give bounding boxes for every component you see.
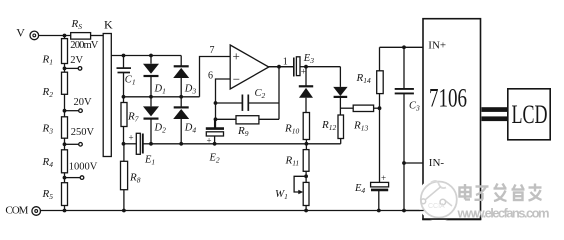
- svg-text:CCIA: CCIA: [428, 203, 445, 210]
- node E3 output: [304, 65, 308, 69]
- svg-text:+: +: [129, 133, 134, 143]
- resistor R14: [377, 47, 384, 108]
- resistor R2: [62, 72, 68, 94]
- svg-text:R14: R14: [356, 72, 371, 85]
- svg-text:R8: R8: [129, 172, 141, 185]
- capacitor E1: [124, 133, 152, 154]
- svg-text:IN-: IN-: [429, 157, 445, 169]
- svg-text:R7: R7: [127, 111, 139, 124]
- wire R2 to R3: [64, 94, 66, 117]
- node output junction: [277, 65, 281, 69]
- resistor R11: [303, 144, 309, 183]
- resistor R12: [338, 115, 344, 139]
- capacitor E2: [206, 119, 224, 144]
- svg-text:E2: E2: [209, 153, 220, 165]
- op-amp U1: [230, 45, 269, 89]
- wire rail to R12: [340, 139, 342, 144]
- node C1 top: [122, 54, 126, 58]
- wire diode mid rail: [124, 96, 200, 98]
- diode D2: [143, 97, 159, 144]
- node C1 R7 junction: [122, 95, 126, 99]
- svg-text:R5: R5: [42, 188, 54, 201]
- node D4 bottom: [179, 142, 183, 146]
- wire R3 to R4: [64, 138, 66, 150]
- svg-text:C3: C3: [409, 101, 420, 113]
- node R9 left: [214, 117, 218, 121]
- svg-text:R13: R13: [353, 120, 368, 133]
- wire IN+: [380, 46, 424, 48]
- contact 1000V: [80, 176, 84, 180]
- wire R7 to rail: [123, 127, 125, 144]
- node R11 W1: [304, 174, 308, 178]
- svg-text:LCD: LCD: [512, 99, 548, 129]
- wire lower mid rail: [151, 143, 341, 145]
- node tap 20V: [63, 109, 67, 113]
- svg-text:C1: C1: [125, 75, 136, 87]
- wire tap 250V: [65, 143, 79, 145]
- svg-text:E3: E3: [303, 53, 314, 65]
- resistor R1: [62, 39, 68, 64]
- node D2 top: [149, 95, 153, 99]
- svg-text:−: −: [233, 72, 240, 87]
- diode D5: [299, 67, 313, 113]
- watermark chinese glyph blocks: [460, 184, 542, 202]
- node R5 bottom: [63, 209, 67, 213]
- diode D4: [173, 97, 189, 144]
- node tap 2V: [63, 67, 67, 71]
- resistor R13: [353, 105, 373, 111]
- IC 7106 box: [423, 19, 481, 220]
- node D4 top: [179, 95, 183, 99]
- node W1 bottom: [304, 209, 308, 213]
- wire R14 node to E4: [379, 108, 381, 182]
- node R13 R14: [378, 106, 382, 110]
- resistor R9: [216, 116, 280, 124]
- wire Rs to K: [91, 35, 104, 37]
- wire E3 node to D6: [306, 66, 340, 68]
- resistor R7: [121, 103, 127, 127]
- svg-text:D4: D4: [184, 123, 197, 135]
- wire junction to R7: [123, 97, 125, 103]
- wire R1 to R2: [64, 64, 66, 73]
- svg-text:COM: COM: [5, 205, 28, 217]
- wire divider column: [64, 36, 66, 39]
- node R8 bottom: [122, 209, 126, 213]
- capacitor E3: [269, 57, 306, 77]
- wire op-amp output: [269, 66, 294, 68]
- node C2 left: [214, 101, 218, 105]
- svg-text:E4: E4: [354, 183, 365, 195]
- capacitor C3: [395, 47, 414, 210]
- svg-text:R11: R11: [285, 155, 300, 168]
- svg-text:K: K: [104, 17, 113, 31]
- wire IN-: [404, 162, 423, 164]
- capacitor E4: [371, 182, 389, 210]
- terminal COM: [32, 207, 41, 216]
- diode D3: [173, 66, 189, 97]
- node C3 top: [402, 45, 406, 49]
- resistor R8: [121, 144, 128, 211]
- svg-text:R10: R10: [284, 123, 299, 136]
- node D2 bottom: [149, 142, 153, 146]
- svg-text:RS: RS: [71, 18, 83, 31]
- terminal V: [30, 31, 39, 40]
- wire D6 to R13: [340, 107, 353, 109]
- node C3 bottom: [402, 209, 406, 213]
- LCD box: [508, 89, 550, 140]
- node R7 E1 R8: [122, 142, 126, 146]
- node IN- junction: [402, 161, 406, 165]
- svg-text:7106: 7106: [429, 84, 467, 113]
- wire tap 20V: [65, 110, 79, 112]
- resistor R5: [62, 183, 68, 206]
- LCD bus bars: [482, 107, 508, 121]
- svg-text:E1: E1: [144, 155, 155, 167]
- wire feedback vertical: [278, 67, 280, 120]
- resistor R4: [62, 150, 68, 173]
- svg-text:V: V: [16, 26, 25, 40]
- contact 250V: [79, 143, 83, 147]
- wire bottom rail: [41, 210, 424, 212]
- svg-text:7: 7: [210, 45, 215, 56]
- resistor Rs: [71, 33, 91, 40]
- svg-text:2V: 2V: [70, 55, 83, 66]
- svg-text:R1: R1: [42, 54, 53, 67]
- svg-text:D1: D1: [154, 84, 166, 96]
- svg-text:R3: R3: [42, 123, 54, 136]
- wire mid rail riser to pin 7: [200, 57, 231, 97]
- svg-text:www.elecfans.com: www.elecfans.com: [457, 206, 550, 221]
- watermark text elecfans: [457, 206, 551, 222]
- IC 7106 box bottom edge: [422, 218, 481, 220]
- node D1 top: [149, 54, 153, 58]
- wire tap 2V: [65, 67, 79, 69]
- node E2 bottom: [213, 142, 217, 146]
- capacitor C1: [117, 56, 132, 97]
- wire tap 1000V: [65, 177, 81, 179]
- wire pin 6: [216, 79, 231, 128]
- svg-text:D2: D2: [154, 123, 167, 135]
- svg-text:W1: W1: [275, 188, 288, 201]
- node tap 1000V: [63, 176, 67, 180]
- svg-text:20V: 20V: [74, 97, 93, 108]
- svg-text:R4: R4: [42, 156, 54, 169]
- wire D3 top lead: [180, 56, 182, 67]
- capacitor C2: [216, 95, 280, 111]
- svg-text:200mV: 200mV: [70, 40, 99, 51]
- potentiometer W1: [294, 176, 309, 210]
- wire R10 to rail: [305, 140, 307, 144]
- resistor R3: [62, 117, 68, 138]
- wire V to Rs: [39, 35, 71, 37]
- svg-text:1: 1: [283, 57, 288, 68]
- node R10 R11: [305, 142, 309, 146]
- diode D1: [143, 56, 159, 97]
- node top junction: [63, 34, 67, 38]
- wire R13 to node: [374, 107, 380, 109]
- svg-text:+: +: [233, 49, 240, 64]
- svg-text:+: +: [381, 173, 386, 183]
- wire top rail K to D3: [111, 55, 181, 57]
- wire R4 to R5: [64, 173, 66, 183]
- svg-text:C2: C2: [255, 88, 266, 100]
- svg-text:D3: D3: [184, 84, 197, 96]
- switch K: [103, 34, 111, 157]
- node E4 bottom: [377, 209, 381, 213]
- wire bottom rail tip at 7106: [404, 210, 424, 212]
- svg-text:R2: R2: [42, 86, 54, 99]
- wire R5 to ground rail: [64, 206, 66, 211]
- watermark logo: [421, 181, 457, 218]
- node tap 250V: [63, 142, 67, 146]
- svg-text:6: 6: [208, 71, 213, 82]
- svg-text:250V: 250V: [71, 127, 95, 138]
- svg-text:R9: R9: [237, 125, 249, 138]
- resistor R10: [303, 113, 309, 140]
- svg-text:R12: R12: [321, 119, 336, 132]
- svg-text:IN+: IN+: [428, 39, 446, 51]
- svg-text:1000V: 1000V: [69, 162, 98, 173]
- contact 20V: [79, 109, 83, 113]
- contact 2V: [78, 67, 82, 71]
- diode D6: [333, 67, 347, 115]
